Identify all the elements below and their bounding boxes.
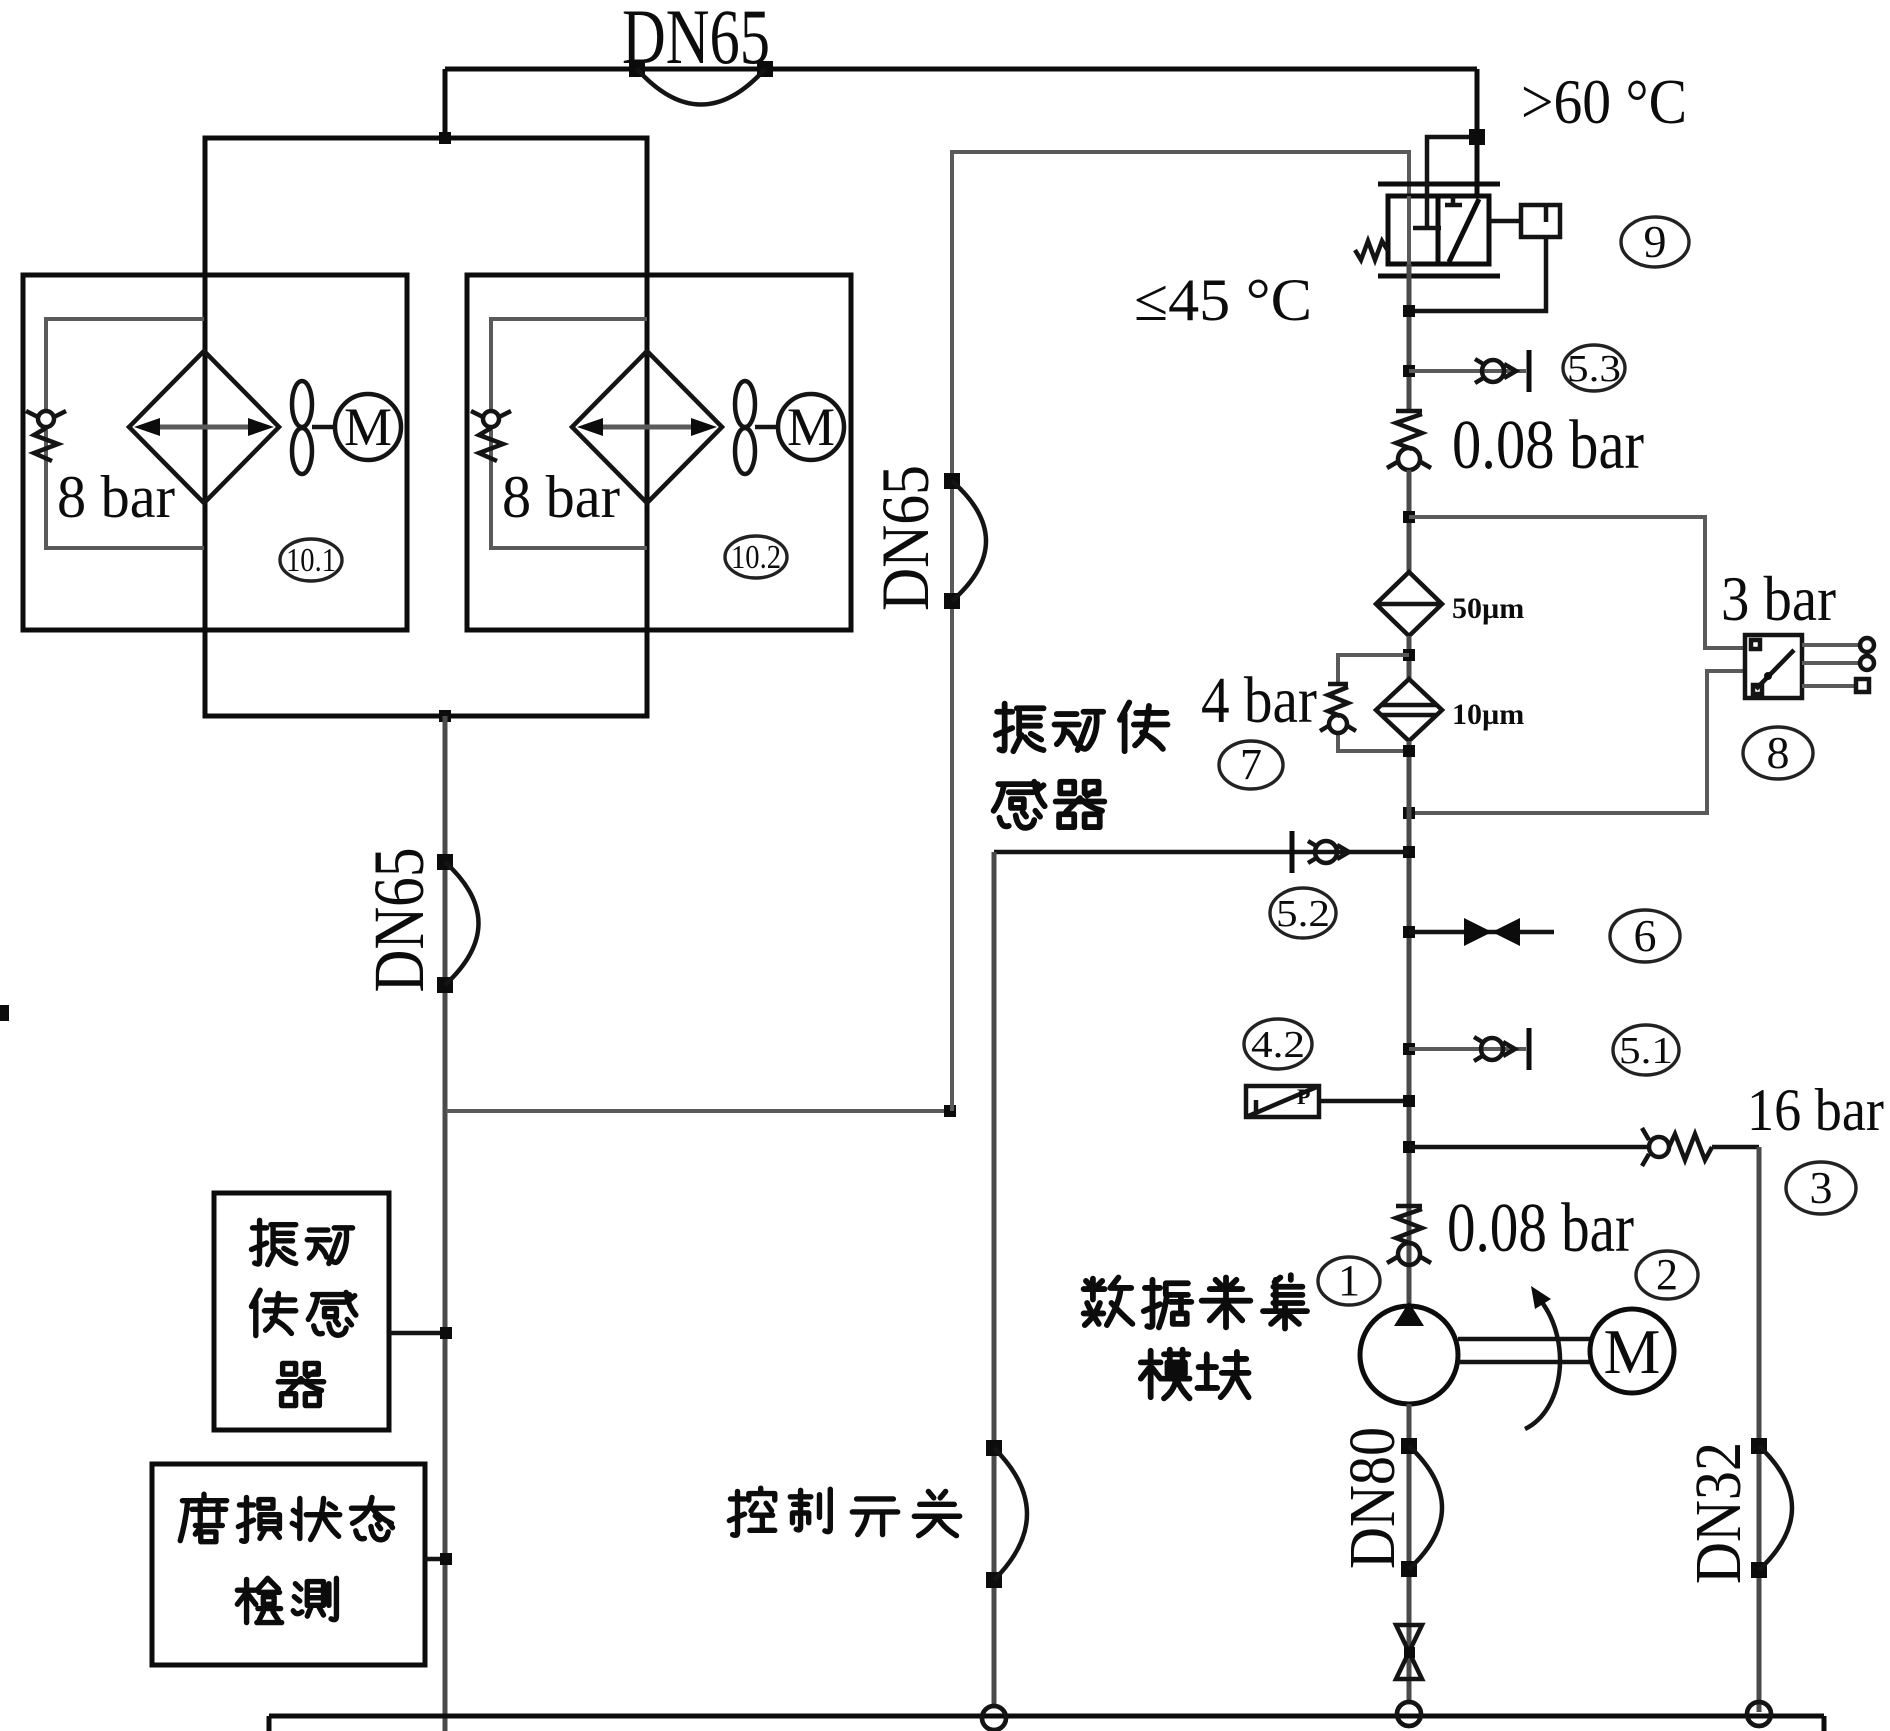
svg-text:8 bar: 8 bar: [502, 464, 620, 530]
capped port 5.2: [1290, 831, 1295, 873]
wire fan to motor 10.1: [312, 425, 336, 430]
filter bypass check valve 4 bar: [1320, 655, 1409, 751]
capped port 5.3: [1527, 350, 1532, 392]
motor M (10.2 fan drive): [778, 394, 844, 460]
label 10.1: [280, 539, 342, 581]
flex hose arc (riser DN65): [952, 481, 986, 601]
wire transducer to main: [1319, 1099, 1409, 1104]
cooler 10.2 bypass relief valve 8 bar: [471, 411, 511, 461]
hose joint dot: [986, 1572, 1002, 1588]
svg-text:4.2: 4.2: [1251, 1024, 1305, 1066]
label 控制开关 (control switch): [729, 1488, 959, 1536]
hose joint dot: [944, 593, 960, 609]
svg-text:5.1: 5.1: [1619, 1030, 1673, 1072]
svg-text:6: 6: [1634, 910, 1657, 961]
wire branch 5.1: [1409, 1047, 1526, 1051]
test point check valve 5.2: [994, 831, 1415, 938]
pump shaft: [1458, 1339, 1590, 1362]
svg-text:3 bar: 3 bar: [1721, 563, 1836, 634]
svg-text:8 bar: 8 bar: [57, 464, 175, 530]
flex hose arc (left DN65): [445, 862, 479, 985]
check valve 5.3: [1482, 360, 1504, 382]
wire: dp switch lower tap loop: [1409, 671, 1745, 813]
wire branch 6: [1409, 930, 1554, 935]
wear state detection box: [152, 1464, 425, 1665]
svg-text:P: P: [1297, 1084, 1310, 1109]
check valve 5.2: [1315, 841, 1337, 863]
edge artifact mark: [0, 1005, 9, 1021]
svg-text:3: 3: [1810, 1162, 1833, 1213]
cooler 10.2 fan blades: [735, 381, 755, 474]
svg-text:16 bar: 16 bar: [1747, 1077, 1884, 1143]
svg-text:DN65: DN65: [867, 465, 943, 611]
junction (bypass top): [1403, 649, 1415, 661]
svg-text:2: 2: [1656, 1250, 1678, 1299]
valve 9 top rail: [1378, 182, 1500, 187]
tank port circle (DN32): [1747, 1702, 1771, 1726]
svg-text:4 bar: 4 bar: [1201, 664, 1317, 737]
wire: dp switch upper tap loop: [1409, 517, 1745, 648]
wire: pump suction DN80: [1407, 1404, 1412, 1702]
cooler 10.2 enclosure box: [467, 275, 851, 630]
valve 9 main through-line: [1407, 196, 1411, 264]
switch contact wires: [1802, 645, 1860, 686]
wire: main line to 50um filter: [1407, 470, 1412, 572]
wire: riser to thermal valve (hot-side): [952, 152, 1409, 1111]
tank port circle (control line): [982, 1706, 1006, 1730]
junction (dp switch upper tap): [1403, 511, 1415, 523]
svg-text:≤45 °C: ≤45 °C: [1134, 267, 1312, 333]
label 5.3: [1563, 345, 1625, 391]
cooler 10.2 air-flow arrow: [577, 418, 717, 436]
thermostatic bypass valve U9: [1355, 129, 1689, 311]
wire branch 5.2 to control line: [994, 850, 1409, 855]
wire: main line valve9 to pump section: [1407, 264, 1412, 410]
svg-text:8: 8: [1767, 727, 1790, 778]
cooler 10.2 heat-exchanger diamond: [572, 351, 722, 503]
wire: tank header line: [269, 1714, 1824, 1719]
label 9: [1621, 217, 1689, 267]
wire branch to relief: [1409, 1145, 1759, 1150]
hose joint dot: [437, 854, 453, 870]
wire: DN32 return line: [1757, 1147, 1762, 1712]
label 2: [1636, 1251, 1698, 1299]
junction: [1403, 365, 1415, 377]
test point check valve 5.3: [1403, 345, 1625, 392]
filter F 10um: [1376, 679, 1524, 741]
relief valve ball and spring: [1642, 1128, 1649, 1166]
valve 9 right position flow path: [1449, 199, 1479, 262]
wire: actuator sense line: [1415, 237, 1546, 311]
tank port circles re-drawn above header: [982, 1706, 1006, 1730]
label 5.1: [1613, 1025, 1679, 1075]
wire: vibration sensor to return line: [389, 1331, 446, 1336]
data acquisition module label: [1084, 1275, 1307, 1398]
svg-text:10µm: 10µm: [1452, 698, 1524, 731]
junction at frame top: [439, 132, 451, 144]
hose joint dot: [757, 61, 773, 77]
pump P1: [1360, 1302, 1458, 1404]
label 1: [1318, 1257, 1380, 1305]
label 3: [1786, 1162, 1856, 1214]
cooler 10.1 bypass relief valve 8 bar: [26, 411, 66, 461]
svg-text:50µm: 50µm: [1452, 592, 1524, 625]
valve 9 pilot stub from hot line: [1427, 137, 1477, 196]
wire between filters: [1407, 636, 1412, 679]
wire: top-right drop to valve 9: [1475, 69, 1480, 198]
wire: return cross line to riser: [446, 1109, 952, 1113]
wire fan to motor 10.2: [755, 425, 779, 430]
label 5.2: [1270, 888, 1336, 938]
valve 9 bottom rail: [1378, 274, 1500, 279]
svg-text:10.1: 10.1: [286, 542, 336, 579]
hose joint dot: [629, 61, 645, 77]
hose joint dot: [1751, 1562, 1767, 1578]
hose joint dot: [1401, 1561, 1417, 1577]
svg-text:>60 °C: >60 °C: [1521, 66, 1687, 137]
wire branch 5.3: [1409, 369, 1526, 373]
flex hose arc (top DN65): [637, 69, 765, 105]
svg-text:9: 9: [1644, 216, 1667, 267]
label 6: [1610, 910, 1680, 962]
svg-text:DN80: DN80: [1336, 1427, 1409, 1569]
hose joint dot: [1751, 1438, 1767, 1454]
motor M (10.1 fan drive): [335, 394, 401, 460]
junction (bypass bottom): [1403, 745, 1415, 757]
node: cooler supply/return frame: [205, 138, 647, 716]
svg-text:DN65: DN65: [359, 848, 439, 993]
back-pressure check valve 0.08 bar (pump inlet): [1387, 1206, 1431, 1265]
transducer body: [1246, 1086, 1319, 1117]
svg-text:5.2: 5.2: [1276, 893, 1330, 935]
suction shut-off valve: [1396, 1625, 1422, 1679]
junction at frame bottom: [439, 710, 451, 722]
shut-off valve V6: [1403, 910, 1680, 962]
cooler 10.1 bypass loop wire: [46, 319, 204, 548]
label 8: [1743, 727, 1813, 779]
motor M2: [1590, 1309, 1674, 1393]
wire: cooler return drop (left column): [443, 716, 448, 1731]
wire: wear detection to return line: [425, 1557, 446, 1562]
hose joint dot: [1401, 1438, 1417, 1454]
relief valve 16 bar (3): [1403, 1077, 1884, 1214]
svg-text:5.3: 5.3: [1567, 348, 1621, 390]
test point check valve 5.1: [1403, 1025, 1679, 1075]
svg-text:DN32: DN32: [1682, 1442, 1755, 1584]
flex hose arc (DN80): [1409, 1446, 1442, 1569]
label 7: [1219, 741, 1283, 789]
back-pressure check valve 0.08 bar (upper): [1387, 411, 1431, 470]
cooler 10.1 air-flow arrow: [134, 418, 274, 436]
hose joint dot: [437, 977, 453, 993]
wire: top DN65 pipe: [445, 67, 1477, 72]
junction (sense line tee): [1403, 305, 1415, 317]
svg-text:10.2: 10.2: [731, 539, 781, 576]
valve 6 bowtie: [1464, 918, 1492, 946]
wire: control switch line: [992, 852, 997, 1706]
svg-text:7: 7: [1240, 740, 1262, 789]
tank port circle (DN80): [1397, 1702, 1421, 1726]
differential pressure switch S8: [1721, 563, 1874, 779]
junction on hot drop: [1469, 129, 1485, 145]
svg-text:1: 1: [1338, 1256, 1360, 1305]
pressure transducer 4.2: [1244, 1019, 1415, 1117]
cooler 10.1 fan blades: [292, 381, 312, 474]
label 4.2: [1244, 1019, 1312, 1069]
vibration sensor label (riser): [994, 702, 1168, 827]
wire: top-left drop to cooler frame: [443, 69, 448, 140]
cooler 10.1 enclosure box: [23, 275, 407, 630]
check valve 5.1: [1481, 1038, 1503, 1060]
hose joint dot: [986, 1440, 1002, 1456]
wire: filters to pump suction trunk: [1407, 741, 1412, 1307]
cooler 10.2 bypass loop wire: [491, 319, 647, 548]
valve 9 left position blocked port: [1413, 196, 1441, 228]
vibration sensor box (left): [214, 1193, 389, 1430]
label 10.2: [725, 536, 787, 578]
valve 9 thermal actuator: [1521, 205, 1560, 237]
svg-text:M: M: [344, 397, 392, 457]
hose joint dot: [944, 473, 960, 489]
svg-text:0.08 bar: 0.08 bar: [1447, 1190, 1634, 1267]
valve 9 spring: [1355, 241, 1388, 260]
valve 9 body: [1388, 196, 1489, 264]
flex hose arc (control switch): [994, 1448, 1027, 1580]
junction (dp switch lower tap): [1403, 807, 1415, 819]
filter F 50um: [1376, 572, 1524, 636]
flex hose arc (DN32): [1759, 1446, 1792, 1570]
svg-text:0.08 bar: 0.08 bar: [1452, 407, 1644, 484]
svg-text:M: M: [1604, 1316, 1661, 1387]
capped port 5.1: [1527, 1028, 1532, 1070]
svg-text:M: M: [787, 397, 835, 457]
rotation arrow: [1525, 1301, 1560, 1429]
cooler 10.1 heat-exchanger diamond: [129, 351, 279, 503]
